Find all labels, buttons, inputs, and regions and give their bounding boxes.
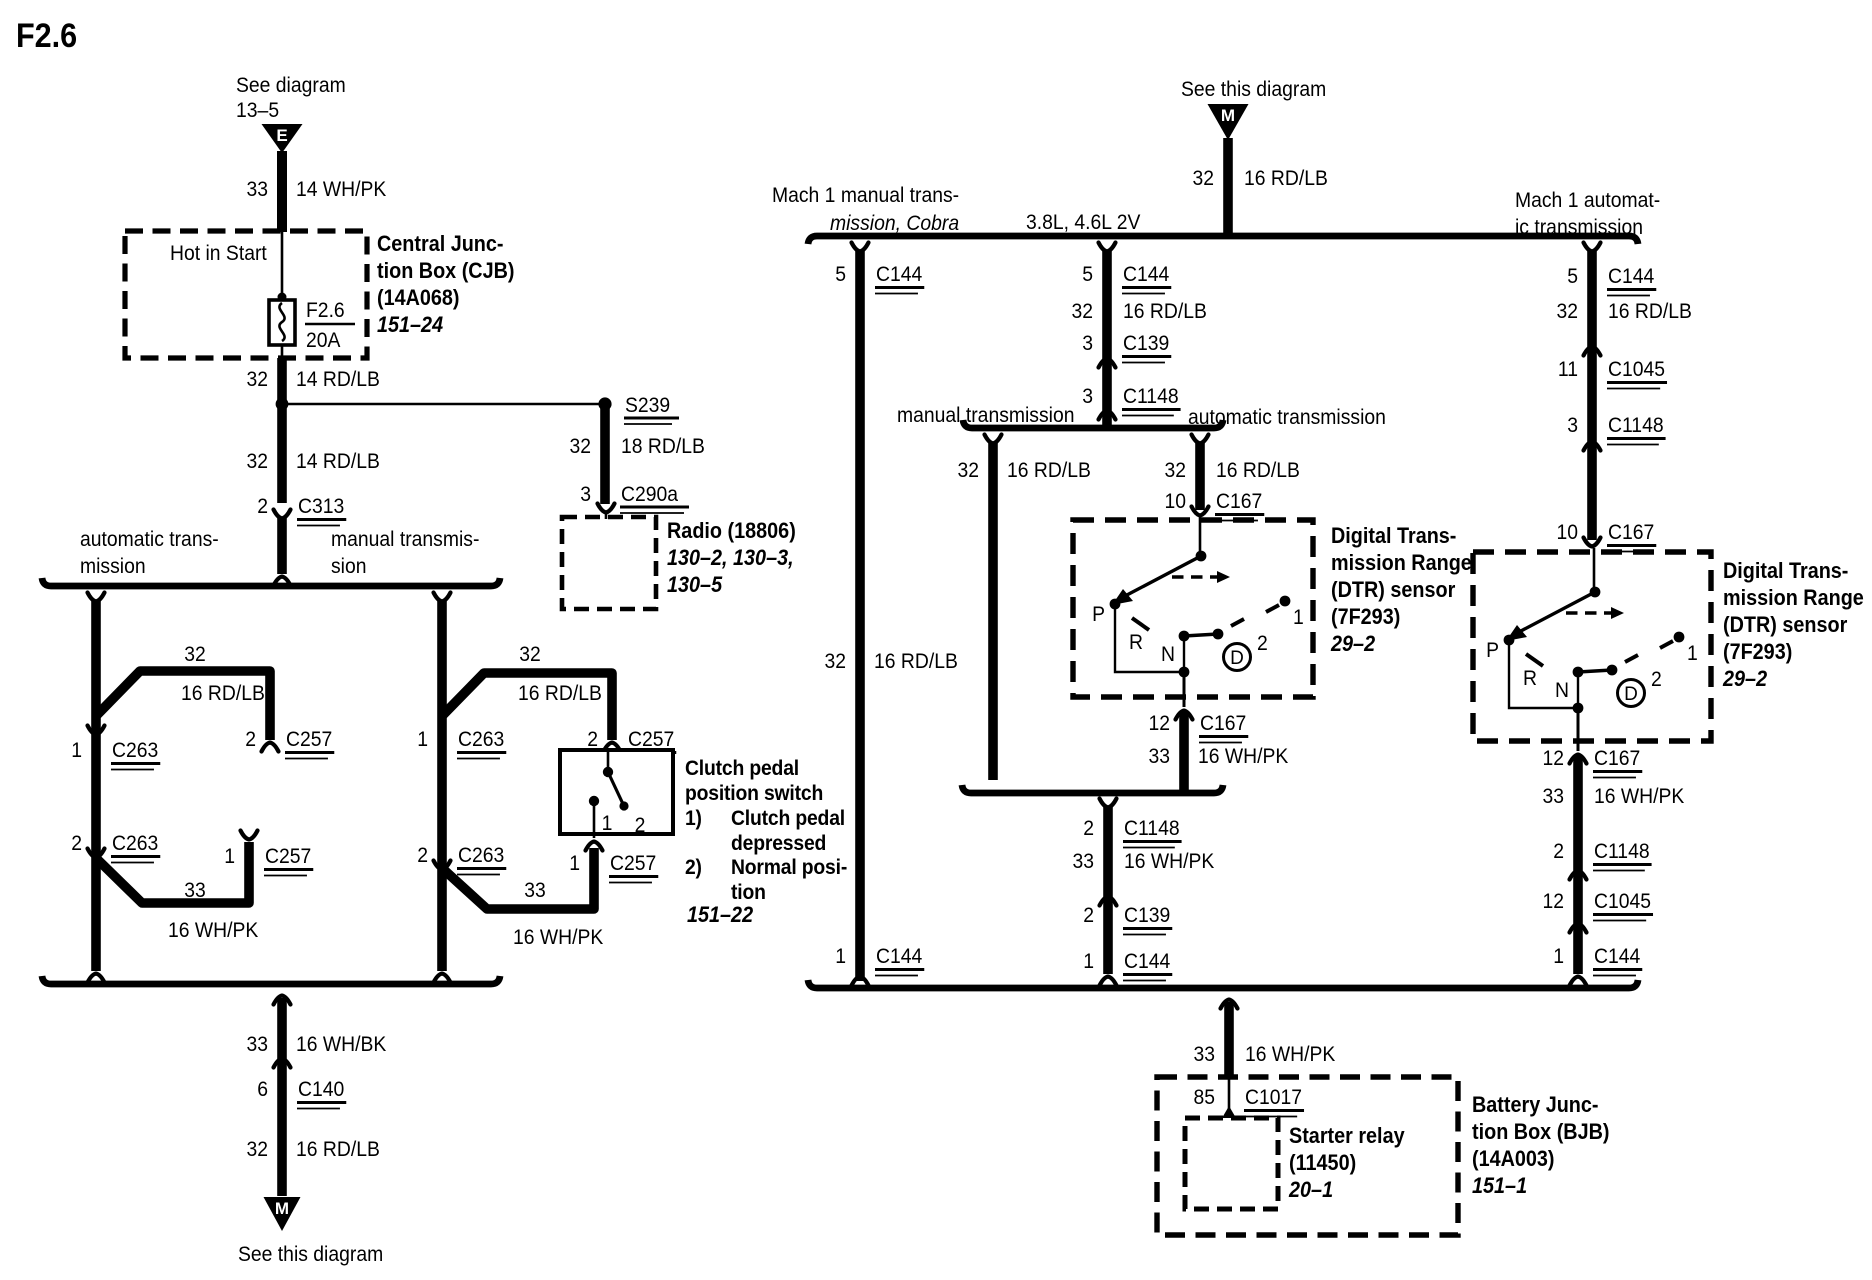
svg-text:29–2: 29–2: [1722, 666, 1768, 691]
svg-text:C167: C167: [1594, 746, 1640, 770]
svg-text:16 RD/LB: 16 RD/LB: [296, 1137, 380, 1161]
svg-text:P: P: [1486, 638, 1499, 662]
svg-text:M: M: [1221, 106, 1235, 125]
svg-text:tion Box (CJB): tion Box (CJB): [377, 258, 515, 283]
svg-text:1: 1: [602, 811, 613, 835]
svg-text:2: 2: [257, 494, 268, 518]
svg-text:16 RD/LB: 16 RD/LB: [1244, 166, 1328, 190]
svg-text:33: 33: [247, 177, 269, 201]
svg-text:mission, Cobra: mission, Cobra: [830, 211, 959, 235]
svg-text:P: P: [1092, 602, 1105, 626]
svg-text:Hot in Start: Hot in Start: [170, 241, 267, 265]
svg-text:16 WH/PK: 16 WH/PK: [1124, 849, 1215, 873]
svg-text:N: N: [1555, 678, 1569, 702]
svg-text:5: 5: [835, 262, 846, 286]
svg-text:C144: C144: [1124, 949, 1170, 973]
svg-text:R: R: [1523, 666, 1537, 690]
svg-text:16 WH/PK: 16 WH/PK: [1245, 1042, 1336, 1066]
svg-text:32: 32: [247, 449, 269, 473]
svg-text:2: 2: [635, 813, 646, 837]
svg-text:32: 32: [1557, 299, 1579, 323]
svg-text:16 RD/LB: 16 RD/LB: [874, 649, 958, 673]
svg-text:32: 32: [184, 642, 206, 666]
svg-text:C263: C263: [112, 831, 158, 855]
svg-text:C1148: C1148: [1123, 384, 1179, 408]
svg-text:85: 85: [1194, 1085, 1216, 1109]
svg-text:C167: C167: [1216, 489, 1262, 513]
svg-text:2: 2: [1083, 816, 1094, 840]
svg-text:C1045: C1045: [1594, 889, 1651, 913]
svg-text:Digital Trans-: Digital Trans-: [1331, 523, 1456, 548]
svg-text:32: 32: [570, 434, 592, 458]
svg-text:2: 2: [1257, 631, 1268, 655]
svg-text:N: N: [1161, 642, 1175, 666]
svg-text:11: 11: [1558, 357, 1578, 381]
svg-text:16 WH/PK: 16 WH/PK: [1198, 744, 1289, 768]
svg-text:automatic trans-: automatic trans-: [80, 527, 219, 551]
svg-text:Mach 1 manual trans-: Mach 1 manual trans-: [772, 183, 959, 207]
svg-text:16 RD/LB: 16 RD/LB: [1216, 458, 1300, 482]
svg-text:D: D: [1230, 648, 1244, 669]
svg-text:tion: tion: [731, 880, 766, 904]
svg-text:C257: C257: [286, 727, 332, 751]
svg-text:32: 32: [519, 642, 541, 666]
svg-text:mission: mission: [80, 554, 146, 578]
svg-text:sion: sion: [331, 554, 367, 578]
svg-text:33: 33: [184, 878, 206, 902]
svg-text:130–5: 130–5: [667, 572, 723, 597]
svg-text:Clutch pedal: Clutch pedal: [685, 756, 799, 780]
svg-text:mission Range: mission Range: [1723, 585, 1864, 610]
svg-text:C144: C144: [1123, 262, 1169, 286]
svg-text:12: 12: [1149, 711, 1171, 735]
svg-text:1): 1): [685, 806, 702, 830]
svg-text:2: 2: [1651, 667, 1662, 691]
svg-text:20A: 20A: [306, 328, 341, 352]
svg-text:2): 2): [685, 855, 702, 879]
svg-text:10: 10: [1557, 520, 1579, 544]
svg-text:(DTR) sensor: (DTR) sensor: [1331, 577, 1456, 602]
svg-text:1: 1: [1687, 641, 1698, 665]
svg-text:position switch: position switch: [685, 781, 823, 805]
svg-text:2: 2: [587, 727, 598, 751]
svg-text:16 WH/PK: 16 WH/PK: [513, 925, 604, 949]
svg-text:16 RD/LB: 16 RD/LB: [1123, 299, 1207, 323]
svg-text:3: 3: [1082, 384, 1093, 408]
svg-text:See diagram: See diagram: [236, 73, 346, 97]
svg-text:5: 5: [1567, 264, 1578, 288]
svg-text:33: 33: [1073, 849, 1095, 873]
svg-text:16 WH/PK: 16 WH/PK: [1594, 784, 1685, 808]
svg-text:(7F293): (7F293): [1723, 639, 1792, 664]
svg-text:13–5: 13–5: [236, 98, 279, 122]
svg-text:12: 12: [1543, 889, 1565, 913]
svg-text:manual transmission: manual transmission: [897, 403, 1075, 427]
svg-text:C139: C139: [1124, 903, 1170, 927]
svg-text:6: 6: [257, 1077, 268, 1101]
svg-text:manual transmis-: manual transmis-: [331, 527, 479, 551]
svg-text:C257: C257: [628, 727, 674, 751]
svg-text:32: 32: [247, 367, 269, 391]
svg-text:14 RD/LB: 14 RD/LB: [296, 367, 380, 391]
svg-text:32: 32: [1072, 299, 1094, 323]
svg-text:33: 33: [1194, 1042, 1216, 1066]
svg-text:C257: C257: [265, 844, 311, 868]
svg-text:151–1: 151–1: [1472, 1173, 1527, 1198]
svg-text:C140: C140: [298, 1077, 344, 1101]
svg-text:C263: C263: [458, 843, 504, 867]
svg-text:Digital Trans-: Digital Trans-: [1723, 558, 1848, 583]
svg-text:3: 3: [1567, 413, 1578, 437]
svg-text:3.8L, 4.6L 2V: 3.8L, 4.6L 2V: [1026, 210, 1141, 234]
svg-text:Battery Junc-: Battery Junc-: [1472, 1092, 1599, 1117]
svg-text:33: 33: [1543, 784, 1565, 808]
svg-text:R: R: [1129, 630, 1143, 654]
svg-text:16 WH/PK: 16 WH/PK: [168, 918, 259, 942]
svg-text:16 RD/LB: 16 RD/LB: [518, 681, 602, 705]
svg-text:33: 33: [1149, 744, 1171, 768]
svg-text:29–2: 29–2: [1330, 631, 1376, 656]
svg-text:C167: C167: [1608, 520, 1654, 544]
svg-text:151–22: 151–22: [687, 902, 754, 927]
svg-text:2: 2: [1083, 903, 1094, 927]
svg-text:(14A068): (14A068): [377, 285, 460, 310]
svg-text:M: M: [275, 1199, 289, 1218]
svg-text:1: 1: [835, 944, 846, 968]
svg-text:20–1: 20–1: [1288, 1177, 1333, 1202]
svg-text:C263: C263: [112, 738, 158, 762]
svg-text:C144: C144: [876, 944, 922, 968]
svg-text:14 RD/LB: 14 RD/LB: [296, 449, 380, 473]
svg-text:C313: C313: [298, 494, 344, 518]
svg-text:C263: C263: [458, 727, 504, 751]
svg-text:5: 5: [1082, 262, 1093, 286]
svg-text:16 RD/LB: 16 RD/LB: [1608, 299, 1692, 323]
svg-text:10: 10: [1165, 489, 1187, 513]
svg-text:1: 1: [1553, 944, 1564, 968]
svg-text:C139: C139: [1123, 331, 1169, 355]
svg-text:32: 32: [958, 458, 980, 482]
svg-text:C1148: C1148: [1124, 816, 1180, 840]
svg-text:Mach 1 automat-: Mach 1 automat-: [1515, 188, 1660, 212]
svg-text:S239: S239: [625, 393, 670, 417]
svg-text:C144: C144: [1594, 944, 1640, 968]
svg-text:F2.6: F2.6: [306, 298, 345, 322]
svg-text:E: E: [276, 126, 287, 145]
svg-text:mission Range: mission Range: [1331, 550, 1472, 575]
svg-text:C290a: C290a: [621, 482, 678, 506]
svg-text:16 RD/LB: 16 RD/LB: [1007, 458, 1091, 482]
svg-text:32: 32: [1193, 166, 1215, 190]
svg-text:12: 12: [1543, 746, 1565, 770]
svg-text:151–24: 151–24: [377, 312, 443, 337]
svg-text:1: 1: [569, 851, 580, 875]
svg-text:18 RD/LB: 18 RD/LB: [621, 434, 705, 458]
svg-text:16 RD/LB: 16 RD/LB: [181, 681, 265, 705]
svg-text:Clutch pedal: Clutch pedal: [731, 806, 845, 830]
svg-text:1: 1: [1293, 605, 1304, 629]
svg-text:F2.6: F2.6: [16, 17, 77, 55]
svg-text:2: 2: [71, 831, 82, 855]
svg-text:14 WH/PK: 14 WH/PK: [296, 177, 387, 201]
svg-text:C1148: C1148: [1594, 839, 1650, 863]
svg-text:2: 2: [417, 843, 428, 867]
svg-text:tion Box (BJB): tion Box (BJB): [1472, 1119, 1610, 1144]
svg-text:33: 33: [247, 1032, 269, 1056]
svg-text:C1045: C1045: [1608, 357, 1665, 381]
svg-text:32: 32: [1165, 458, 1187, 482]
svg-text:1: 1: [417, 727, 428, 751]
svg-text:1: 1: [1083, 949, 1094, 973]
svg-text:Radio (18806): Radio (18806): [667, 518, 796, 543]
svg-text:1: 1: [71, 738, 82, 762]
svg-text:C144: C144: [1608, 264, 1654, 288]
svg-text:C1148: C1148: [1608, 413, 1664, 437]
svg-text:Starter relay: Starter relay: [1289, 1123, 1405, 1148]
svg-text:32: 32: [825, 649, 847, 673]
svg-text:(14A003): (14A003): [1472, 1146, 1555, 1171]
svg-text:2: 2: [245, 727, 256, 751]
svg-text:See this diagram: See this diagram: [1181, 77, 1326, 101]
svg-text:(DTR) sensor: (DTR) sensor: [1723, 612, 1848, 637]
svg-text:D: D: [1624, 684, 1638, 705]
svg-text:3: 3: [1082, 331, 1093, 355]
svg-text:1: 1: [224, 844, 235, 868]
svg-text:3: 3: [580, 482, 591, 506]
svg-text:33: 33: [524, 878, 546, 902]
svg-text:2: 2: [1553, 839, 1564, 863]
svg-text:C257: C257: [610, 851, 656, 875]
svg-text:C167: C167: [1200, 711, 1246, 735]
svg-text:16 WH/BK: 16 WH/BK: [296, 1032, 387, 1056]
svg-text:Central Junc-: Central Junc-: [377, 231, 504, 256]
svg-text:(7F293): (7F293): [1331, 604, 1400, 629]
svg-text:32: 32: [247, 1137, 269, 1161]
svg-text:130–2, 130–3,: 130–2, 130–3,: [667, 545, 794, 570]
svg-text:depressed: depressed: [731, 831, 826, 855]
svg-text:Normal posi-: Normal posi-: [731, 855, 847, 879]
svg-text:C1017: C1017: [1245, 1085, 1302, 1109]
svg-text:See this diagram: See this diagram: [238, 1242, 383, 1266]
svg-text:C144: C144: [876, 262, 922, 286]
svg-text:(11450): (11450): [1289, 1150, 1356, 1175]
